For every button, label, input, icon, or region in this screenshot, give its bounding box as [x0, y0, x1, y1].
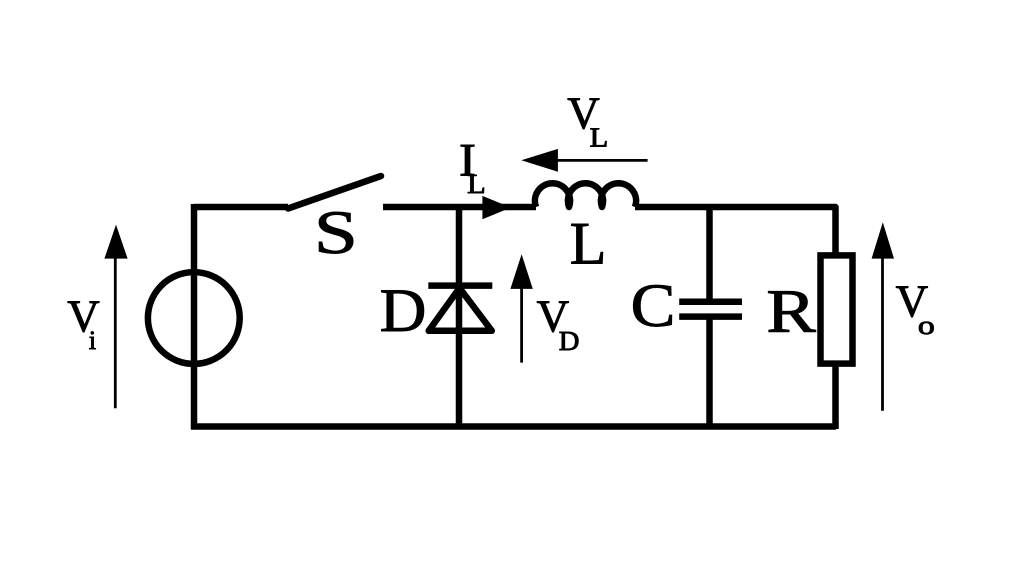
wire capacitor branch lower — [706, 317, 713, 429]
arrow Vi annotation stem — [114, 252, 117, 408]
capacitor C bottom plate — [679, 313, 742, 320]
svg-text:L: L — [570, 211, 607, 277]
wire switch to inductor — [383, 204, 536, 211]
svg-text:L: L — [467, 169, 486, 199]
arrow VD annotation head — [510, 254, 532, 289]
arrow Vo annotation stem — [881, 255, 884, 411]
arrow IL current head on wire — [482, 196, 511, 219]
svg-text:C: C — [631, 273, 676, 340]
resistor R box — [821, 255, 853, 363]
wire inductor to top-right corner — [635, 207, 836, 255]
voltage source Vi circle — [148, 272, 240, 364]
svg-text:S: S — [314, 200, 358, 267]
svg-text:o: o — [918, 311, 935, 340]
wire diode branch upper — [456, 207, 463, 286]
wire capacitor branch upper — [706, 207, 713, 301]
diode D triangle — [429, 288, 492, 331]
arrow VL annotation stem — [555, 159, 648, 162]
diode D cathode bar — [428, 282, 492, 289]
arrow VL annotation head — [521, 149, 558, 172]
arrow VD annotation stem — [520, 285, 523, 363]
arrow Vi annotation head — [104, 225, 127, 259]
inductor L coil — [535, 183, 636, 207]
svg-text:R: R — [766, 278, 816, 345]
switch S blade — [288, 176, 381, 209]
svg-text:D: D — [559, 326, 580, 356]
svg-text:i: i — [89, 326, 96, 355]
arrow Vo annotation head — [872, 222, 894, 258]
wire diode branch lower — [456, 285, 463, 429]
wire left vertical (through source) — [191, 204, 198, 429]
capacitor C top plate — [679, 298, 742, 305]
wire top-left horizontal (source to switch) — [194, 204, 288, 211]
wire resistor bottom to bottom rail — [832, 363, 839, 429]
svg-text:D: D — [380, 278, 427, 345]
wire bottom horizontal — [191, 423, 836, 430]
svg-text:L: L — [590, 123, 609, 153]
